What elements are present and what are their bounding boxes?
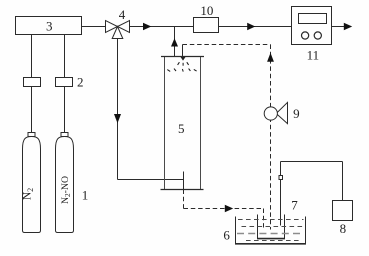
liquid dashes row 4 <box>246 240 301 242</box>
scrubbing column 5 <box>161 57 205 190</box>
wire: N2-NO cylinder to regulator <box>64 87 66 133</box>
liquid dashes row 1 <box>238 219 304 221</box>
inner vessel bottom thick <box>257 238 285 240</box>
wire: column top gas outlet riser to main line <box>174 27 176 57</box>
svg-text:N2: N2 <box>22 188 36 200</box>
mixer box 3 <box>16 17 82 35</box>
arrowhead: up on pump riser <box>267 53 274 62</box>
wire: cable down to meter 8 <box>342 162 344 202</box>
svg-text:1: 1 <box>82 187 89 202</box>
NOx analyzer 11 <box>292 7 332 45</box>
svg-text:5: 5 <box>178 121 185 136</box>
wire: electrode cable horizontal <box>281 161 343 163</box>
wire: dip tube inside column 5 <box>183 172 185 190</box>
wire: spray feed drop into column top <box>182 45 184 57</box>
svg-text:11: 11 <box>307 47 320 62</box>
wire: analyzer11 outlet <box>332 26 346 28</box>
gas cylinder N2-NO <box>56 133 74 233</box>
wire: N2 cylinder to regulator <box>31 87 33 133</box>
liquid dashes row 3 <box>237 233 304 235</box>
wire: valve4 down stem <box>117 39 119 180</box>
arrowhead: up on column gas riser <box>171 38 178 46</box>
wire: dashed spray line from pump (horizontal) <box>183 44 271 46</box>
wire: box3 to valve4 <box>81 26 106 28</box>
svg-text:N2-NO: N2-NO <box>60 176 72 204</box>
inner vessel <box>258 215 285 239</box>
wire: gas inlet to column bottom <box>118 179 184 181</box>
svg-text:7: 7 <box>291 197 298 212</box>
svg-text:10: 10 <box>200 3 213 18</box>
arrowhead: down on valve stem <box>114 114 121 123</box>
regulator 2 (right) <box>56 78 73 87</box>
wire: electrode 7 lead in vessel <box>280 162 282 226</box>
gas filter box 10 <box>194 18 219 33</box>
arrowhead: after box 10 <box>247 23 255 31</box>
arrowhead: after valve 4 <box>143 23 151 31</box>
wire: dashed pump riser <box>270 45 272 230</box>
regulator 2 (left) <box>24 78 41 87</box>
wire: dashed column drain down <box>183 190 185 209</box>
wire: regulator to mixer box3 left <box>31 35 33 78</box>
arrowhead: right on drain line <box>225 205 233 213</box>
wire: regulator to mixer box3 right <box>64 35 66 78</box>
svg-text:4: 4 <box>119 7 126 22</box>
absorption tank 6 <box>236 217 306 244</box>
svg-text:2: 2 <box>77 74 84 89</box>
gas cylinder N2 <box>23 133 41 233</box>
pump 9 <box>264 102 287 123</box>
svg-text:3: 3 <box>46 18 53 33</box>
wire: dashed drain drop into inner vessel <box>263 209 265 228</box>
wire: dashed drain to tank 6 <box>184 208 264 210</box>
liquid dashes row 2 <box>242 226 304 228</box>
pH meter box 8 <box>333 201 353 221</box>
svg-text:9: 9 <box>293 106 300 121</box>
electrode connector square <box>279 176 283 180</box>
tank 6 bottom thick <box>235 243 306 245</box>
svg-text:8: 8 <box>340 221 347 236</box>
wire: valve4 to analyzer11 main gas line <box>129 26 292 28</box>
valve 4 (three-way) <box>106 21 130 39</box>
svg-text:6: 6 <box>223 227 230 242</box>
spray fan dashes <box>167 62 196 71</box>
spray nozzle <box>181 57 186 61</box>
arrowhead: analyzer outlet <box>344 23 352 31</box>
